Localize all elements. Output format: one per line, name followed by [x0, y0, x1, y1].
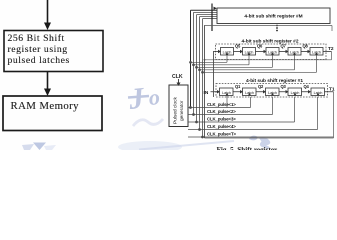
wire feedback riser to register #2 input [213, 52, 215, 98]
wire L24 to L25 [301, 50, 311, 53]
svg-text:256 Bit Shift: 256 Bit Shift [8, 33, 65, 44]
svg-text:Pulsed clock: Pulsed clock [173, 96, 179, 124]
wire L12 to L13 [256, 90, 266, 94]
latch L11 [220, 88, 234, 96]
pulsed clock generator box [169, 85, 188, 127]
wire feedback bottom run [205, 137, 334, 139]
latch L15 [311, 88, 325, 96]
svg-text:Q6: Q6 [257, 44, 263, 49]
svg-text:pulsed latches: pulsed latches [8, 55, 70, 66]
wire input riser to register #M [211, 4, 213, 32]
watermark wash bottom left-center [118, 141, 182, 153]
clock bus vertical CLK_pulse<3> [196, 15, 198, 122]
latch L24 [288, 48, 301, 56]
wire CLK_pulse2 bottom line [188, 97, 273, 116]
wire clock row2 line4 [199, 55, 295, 71]
wire T2 drop [331, 52, 333, 60]
svg-text:Q8: Q8 [303, 44, 309, 49]
watermark triangles bottom left [33, 143, 46, 151]
wire clock row2 line1 [190, 55, 228, 63]
register #1 dashed box [216, 84, 328, 98]
register #M box [217, 8, 330, 24]
clock bus vertical CLK_pulse<4> [199, 17, 201, 130]
latch L13 [266, 88, 280, 96]
wire bus top bend 2 to register #M [194, 11, 218, 13]
block 256 Bit Shift register using pulsed latches [4, 31, 103, 72]
svg-text:CLK_pulse<3>: CLK_pulse<3> [207, 117, 236, 122]
node T1 output [325, 87, 335, 93]
node T2 output [323, 46, 334, 52]
svg-text:CLK: CLK [172, 74, 183, 80]
svg-text:CLK_pulse<1>: CLK_pulse<1> [207, 102, 236, 107]
wire T2 feedback stub down [331, 26, 333, 32]
node ellipsis dots [276, 25, 278, 32]
svg-text:Q1: Q1 [235, 84, 241, 89]
wire clock row2 line3 [196, 55, 273, 68]
wire bus top bend 4 to register #M [200, 16, 218, 18]
wire T2 feedback top run [204, 25, 332, 27]
wire CLK_pulseT bottom line [188, 136, 334, 138]
svg-text:4-bit sub shift register #M: 4-bit sub shift register #M [244, 14, 302, 20]
clock pin arrows row1 [226, 93, 320, 96]
svg-text:register using: register using [8, 44, 68, 55]
wire IN arrow [211, 90, 221, 94]
wire L21 to L22 [234, 50, 244, 53]
svg-text:Q7: Q7 [281, 44, 287, 49]
wire CLK arrow into pulsed clock generator [177, 79, 181, 86]
wire top input arrow into 256-bit box [44, 0, 51, 30]
svg-text:Q5: Q5 [235, 44, 241, 49]
latch L23 [266, 48, 279, 56]
clock bus vertical CLK_pulse<T> [202, 19, 204, 137]
watermark wave bottom center [133, 119, 163, 126]
latch L14 [288, 88, 302, 96]
clock bus vertical CLK_pulse<1> [190, 10, 192, 107]
wire T1 drop to feedback [333, 92, 335, 138]
wire CLK_pulse3 bottom line [188, 97, 295, 123]
watermark Jo script [126, 82, 161, 117]
block RAM Memory [3, 96, 102, 131]
svg-text:Q2: Q2 [258, 84, 264, 89]
wire L13 to L14 [279, 90, 289, 94]
wire T2 feedback bottom run [205, 59, 332, 61]
wire arrow 256-bit box to RAM box [44, 72, 51, 97]
svg-text:CLK_pulse<2>: CLK_pulse<2> [207, 109, 236, 114]
wire register #2 input arrow [213, 50, 221, 53]
wire L11 to L12 [233, 90, 243, 94]
node junction T2 run [204, 59, 206, 61]
svg-text:Q4: Q4 [304, 84, 310, 89]
svg-text:RAM Memory: RAM Memory [11, 100, 80, 112]
watermark streak bottom center [139, 141, 234, 150]
latch L12 [243, 88, 257, 96]
wire bus top bend 1 to register #M [191, 9, 218, 11]
svg-text:CLK_pulse<4>: CLK_pulse<4> [207, 124, 236, 129]
register #2 dashed box [216, 44, 327, 60]
wire L23 to L24 [279, 50, 289, 53]
wire L22 to L23 [256, 50, 267, 53]
wire clock row2 line5 [202, 55, 317, 73]
latch L25 [310, 48, 323, 56]
wire input arrow into register #M [214, 7, 217, 10]
svg-text:J: J [126, 82, 146, 117]
svg-text:CLK_pulse<T>: CLK_pulse<T> [207, 132, 236, 137]
clock pin arrows row2 [226, 52, 319, 55]
latch L22 [243, 48, 256, 56]
svg-text:generator: generator [179, 100, 185, 121]
watermark swirl bottom right [249, 136, 258, 141]
wire bus top bend 5 to register #M [203, 18, 218, 20]
wire L14 to L15 [302, 90, 312, 94]
svg-text:Q3: Q3 [281, 84, 287, 89]
wire bus top bend 3 to register #M [197, 14, 218, 16]
wire CLK_pulse1 bottom line [188, 96, 251, 109]
svg-text:IN: IN [204, 90, 209, 96]
clock bus vertical CLK_pulse<2> [193, 12, 195, 114]
svg-text:T2: T2 [328, 46, 334, 52]
svg-text:4-bit sub shift register #2: 4-bit sub shift register #2 [241, 39, 298, 45]
svg-text:T1: T1 [329, 87, 335, 93]
svg-text:o: o [147, 84, 161, 110]
wire clock row2 line2 [193, 55, 250, 66]
svg-text:Fig. 5. Shift register: Fig. 5. Shift register [217, 146, 279, 150]
wire T2 feedback left riser [204, 26, 206, 139]
latch L21 [221, 48, 234, 56]
wire CLK_pulse4 bottom line [188, 97, 318, 131]
